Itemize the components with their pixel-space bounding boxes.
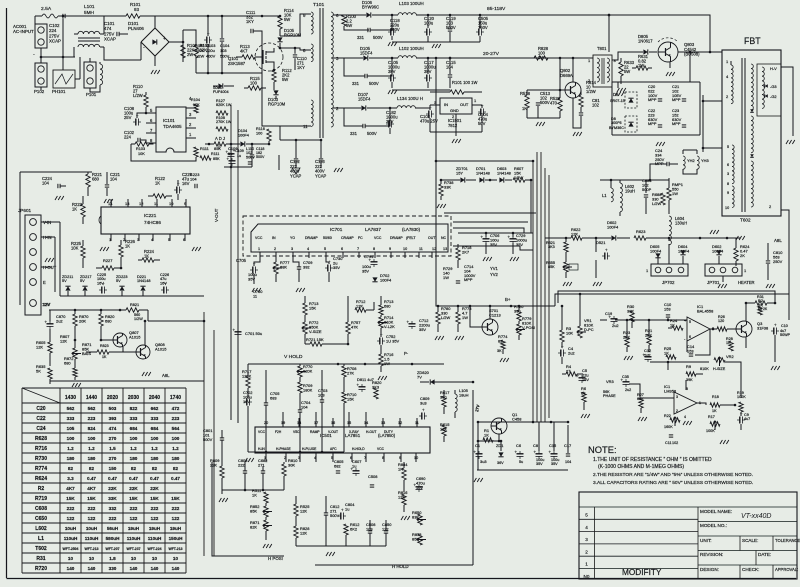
svg-text:19uH: 19uH	[170, 526, 182, 531]
connector P101	[84, 62, 97, 97]
svg-text:222: 222	[238, 462, 245, 467]
svg-text:68K: 68K	[280, 264, 287, 269]
wire jp feeds	[658, 244, 719, 264]
svg-text:DRAMP: DRAMP	[390, 236, 403, 240]
svg-text:122: 122	[88, 516, 96, 521]
wire opamp fb	[687, 329, 710, 355]
svg-text:6: 6	[689, 335, 691, 339]
svg-text:C6: C6	[516, 443, 522, 448]
capacitor C119 103 500V	[446, 14, 456, 42]
label UNIT	[700, 538, 712, 543]
resistor R185 850K	[195, 43, 205, 58]
svg-text:VR2: VR2	[726, 354, 734, 359]
svg-text:35V: 35V	[333, 265, 340, 270]
svg-text:110uH: 110uH	[148, 536, 162, 541]
diode D805 1N0617	[628, 34, 657, 55]
vertical IC dashed outline	[243, 216, 451, 256]
svg-text:2030: 2030	[128, 395, 139, 401]
svg-text:1/2W: 1/2W	[586, 89, 596, 94]
svg-text:DATE:: DATE:	[758, 552, 771, 557]
svg-text:5W: 5W	[624, 69, 630, 74]
svg-text:180: 180	[88, 456, 96, 461]
svg-text:C608: C608	[35, 506, 47, 512]
svg-text:C19: C19	[605, 311, 613, 316]
svg-text:470u 25V: 470u 25V	[420, 119, 438, 124]
svg-text:5V: 5V	[80, 279, 85, 283]
capacitor C19 2u2	[605, 311, 619, 328]
capacitor C120 100u	[424, 14, 435, 42]
svg-text:500V: 500V	[256, 155, 265, 159]
capacitor C102b 224	[124, 130, 156, 143]
capacitor C109 1u	[226, 144, 244, 159]
svg-text:WFT-237: WFT-237	[126, 547, 140, 551]
svg-text:30K: 30K	[288, 462, 295, 467]
svg-text:YV1: YV1	[490, 266, 499, 271]
wire	[231, 203, 238, 300]
resistor R720b 390	[514, 304, 524, 324]
svg-text:35V: 35V	[551, 462, 558, 466]
svg-text:C22: C22	[36, 416, 45, 422]
svg-text:330: 330	[109, 566, 117, 571]
capacitor C113 222 400V YCAP	[315, 140, 327, 178]
capacitor C222 47u 16V	[174, 172, 193, 200]
svg-text:H-SIZE: H-SIZE	[713, 367, 726, 371]
svg-text:R9: R9	[686, 364, 692, 369]
svg-text:(LA7830): (LA7830)	[402, 227, 421, 232]
wire yoke left	[702, 95, 722, 152]
capacitor C110 271 1KY	[293, 48, 308, 70]
pin 14	[108, 199, 113, 207]
capacitor C112 222 400V YCAP	[290, 140, 302, 178]
svg-text:WFT-224: WFT-224	[147, 547, 161, 551]
svg-text:DUTY: DUTY	[384, 430, 394, 434]
resistor R871b 85K BAIS	[72, 339, 91, 368]
diode D107 15DF4	[344, 92, 391, 111]
svg-text:V-L2K: V-L2K	[384, 324, 395, 329]
wire	[219, 489, 284, 502]
svg-text:L103 100UH: L103 100UH	[399, 1, 424, 6]
svg-text:10K: 10K	[566, 330, 573, 335]
capacitor C14 153	[687, 344, 695, 356]
svg-text:1N4148: 1N4148	[137, 279, 150, 283]
capacitor C111 332 1KY	[246, 10, 262, 38]
FBT HV cell	[757, 64, 781, 116]
svg-text:39K: 39K	[686, 378, 693, 382]
resistor R116 100	[256, 127, 271, 144]
wire V-OUT loop	[0, 0, 1, 1]
resistor R617 330	[440, 390, 449, 414]
IC501 top pins	[264, 421, 419, 425]
svg-text:2040: 2040	[149, 395, 160, 401]
capacitor C730 2u 35V	[325, 256, 343, 282]
resistor R223 1K	[72, 196, 85, 224]
svg-text:2SK1587: 2SK1587	[228, 61, 246, 66]
transistor Q808 A1015	[123, 342, 167, 359]
label T602	[740, 218, 751, 223]
svg-text:140: 140	[151, 566, 159, 571]
capacitor C114 331 500V	[357, 15, 392, 40]
pin E	[43, 280, 46, 285]
wire	[40, 57, 42, 90]
resistor R607 15K 1/2W	[513, 166, 532, 182]
svg-text:100: 100	[250, 81, 258, 86]
wire yoke link	[280, 126, 322, 141]
diode D701 1N4148	[476, 166, 497, 183]
resistor R102 22K 2W	[181, 43, 198, 58]
svg-text:F2H: F2H	[275, 430, 282, 434]
svg-text:6K2: 6K2	[350, 526, 357, 531]
resistor R713 15K	[303, 296, 319, 315]
label HEATER	[738, 280, 755, 285]
svg-text:100: 100	[130, 436, 138, 441]
svg-text:684: 684	[130, 426, 138, 431]
svg-text:5W: 5W	[346, 23, 352, 28]
resistor R777 68K	[273, 258, 289, 282]
diode D8 SR07	[610, 92, 637, 108]
svg-text:250V: 250V	[773, 259, 783, 264]
wire 12v rail	[49, 309, 126, 312]
label 12V	[42, 302, 50, 307]
diode D605 100F4	[650, 244, 662, 258]
svg-text:L101: L101	[84, 4, 95, 10]
svg-text:UNIT:: UNIT:	[700, 538, 712, 543]
svg-text:C705: C705	[236, 258, 247, 263]
resistor R814 10 1/2W	[579, 80, 597, 112]
note line 1	[593, 457, 712, 463]
node	[40, 15, 65, 59]
capacitor C118b 182 500V	[250, 144, 265, 167]
svg-text:ZD1: ZD1	[496, 443, 503, 448]
resistor R115 100	[244, 76, 266, 90]
svg-text:100: 100	[256, 131, 262, 135]
svg-text:R628: R628	[35, 436, 47, 442]
svg-text:WFT-213: WFT-213	[168, 547, 182, 551]
ground	[683, 421, 729, 444]
resistor R528 470	[550, 90, 562, 118]
capacitor C17 104	[564, 443, 571, 464]
svg-text:6: 6	[341, 247, 343, 251]
pin 1	[109, 234, 111, 242]
svg-text:392: 392	[303, 264, 310, 269]
svg-text:+: +	[163, 36, 166, 42]
svg-text:+: +	[740, 412, 743, 417]
svg-text:110uH: 110uH	[64, 536, 78, 541]
wire	[0, 0, 1, 1]
flyback FBT label	[744, 36, 761, 46]
wire	[0, 0, 1, 1]
svg-text:GND: GND	[450, 108, 459, 113]
svg-text:JP702: JP702	[662, 280, 675, 285]
svg-text:1.5: 1.5	[109, 446, 116, 451]
svg-text:580uH: 580uH	[106, 536, 121, 541]
ground	[245, 458, 254, 462]
svg-text:+: +	[422, 408, 425, 413]
svg-text:10uH: 10uH	[86, 526, 98, 531]
wire	[144, 320, 206, 345]
svg-text:4K7: 4K7	[240, 49, 248, 54]
pin 2	[333, 106, 344, 111]
svg-text:R823: R823	[100, 344, 109, 348]
svg-text:+: +	[474, 450, 477, 455]
wire	[392, 89, 450, 91]
svg-text:C24: C24	[36, 426, 45, 432]
IC501 bottom labels	[258, 447, 385, 451]
svg-text:1.2: 1.2	[151, 446, 158, 451]
svg-text:+: +	[369, 258, 372, 263]
svg-text:VCC: VCC	[377, 447, 385, 451]
svg-text:5K: 5K	[36, 368, 41, 373]
wire	[60, 222, 204, 296]
svg-text:YH2: YH2	[687, 158, 695, 163]
resistor R2b 2K	[758, 298, 763, 315]
svg-text:4K7: 4K7	[87, 486, 96, 491]
svg-text:-G3: -G3	[770, 84, 777, 89]
svg-text:HEATER: HEATER	[738, 280, 755, 285]
svg-text:1K: 1K	[252, 492, 257, 497]
svg-text:100: 100	[88, 436, 96, 441]
svg-text:0.47: 0.47	[108, 476, 117, 481]
svg-text:180K: 180K	[303, 387, 313, 392]
svg-text:OUT: OUT	[460, 102, 469, 107]
capacitor C226 47u 16V	[160, 273, 169, 294]
svg-text:1430: 1430	[65, 395, 76, 401]
diode D104 100F4	[226, 129, 270, 147]
capacitor C810 563 250V	[766, 243, 783, 280]
resistor R635 5K	[36, 364, 52, 384]
label TOLERANCE	[775, 538, 800, 543]
svg-text:180: 180	[151, 456, 159, 461]
resistor R621 3K3	[546, 237, 568, 262]
svg-text:1W: 1W	[443, 275, 449, 280]
wire	[0, 0, 1, 1]
svg-text:MODIFITY: MODIFITY	[622, 568, 662, 577]
svg-text:BAL4558: BAL4558	[697, 308, 714, 313]
FBT lower winding	[725, 145, 734, 210]
pin V-IN	[41, 220, 60, 225]
svg-text:P-: P-	[404, 351, 409, 356]
zener ZD223 5V	[116, 275, 128, 291]
capacitor C102	[49, 14, 65, 44]
svg-text:10K: 10K	[138, 152, 145, 156]
capacitor C115 104	[446, 57, 456, 88]
svg-text:122: 122	[172, 516, 180, 521]
resistor R624 0.47 2K	[734, 238, 750, 266]
resistor R525 12K	[294, 496, 310, 522]
svg-text:R104: R104	[191, 98, 200, 102]
svg-text:25V: 25V	[124, 115, 132, 120]
svg-text:(FELT: (FELT	[406, 236, 416, 240]
svg-text:1.2: 1.2	[88, 446, 95, 451]
wire bus to vr1	[561, 293, 582, 330]
diode S004 FUF4004	[213, 83, 234, 94]
diode D221 1N4148	[137, 275, 150, 291]
pot R650 83K	[412, 510, 426, 525]
svg-text:270: 270	[109, 456, 117, 461]
svg-text:500V: 500V	[446, 25, 456, 30]
pin H-OUT	[41, 265, 57, 270]
wire	[668, 238, 670, 241]
svg-text:74HC86: 74HC86	[144, 220, 161, 225]
svg-text:PLN406: PLN406	[128, 26, 144, 31]
svg-text:R31: R31	[36, 556, 45, 562]
svg-text:H-OUT: H-OUT	[366, 430, 376, 434]
capacitor C225 100u 16V	[97, 273, 107, 294]
svg-text:2: 2	[769, 204, 771, 209]
svg-text:3: 3	[676, 395, 678, 399]
degauss coil	[90, 58, 103, 92]
svg-text:140: 140	[130, 566, 138, 571]
svg-text:1.8: 1.8	[109, 556, 116, 561]
svg-text:400V: 400V	[206, 53, 216, 58]
resistor R688 330 L/2W	[652, 192, 665, 206]
svg-text:102: 102	[592, 103, 600, 108]
resistor R713b 680	[379, 296, 394, 315]
wire	[0, 0, 1, 1]
svg-text:4: 4	[585, 525, 588, 530]
svg-text:H-PLUSE: H-PLUSE	[302, 447, 317, 451]
wire h-posi loop	[212, 462, 284, 556]
ground	[718, 284, 775, 288]
wire	[0, 0, 1, 1]
ground	[45, 258, 54, 262]
pin H-IN	[41, 235, 55, 240]
op-amp IC101 TDA4605	[156, 107, 186, 152]
svg-text:YV2: YV2	[490, 272, 499, 277]
svg-text:19uH: 19uH	[128, 526, 140, 531]
capacitor C105 1000u 35V	[388, 58, 400, 94]
svg-text:X-RAY: X-RAY	[349, 430, 360, 434]
resistor R105 22K	[194, 147, 198, 157]
svg-text:22K: 22K	[129, 486, 138, 491]
capacitor C513 102 500V	[536, 91, 551, 118]
svg-text:TDA4605: TDA4605	[163, 124, 182, 129]
svg-text:120: 120	[718, 319, 724, 323]
svg-text:PH101: PH101	[52, 89, 66, 94]
svg-text:11: 11	[253, 293, 257, 298]
svg-text:5u: 5u	[519, 460, 523, 464]
svg-text:500V: 500V	[540, 100, 550, 105]
svg-text:1: 1	[646, 268, 648, 273]
pin 13	[125, 199, 130, 207]
svg-text:DESIGN:: DESIGN:	[700, 567, 719, 572]
inductor L102 100UH	[392, 46, 560, 58]
resistor R770 820K	[297, 364, 313, 382]
resistor R25 1K	[664, 346, 676, 359]
wire	[458, 232, 531, 237]
op-amp IC1 LM358	[664, 384, 701, 419]
svg-text:500V: 500V	[246, 155, 255, 159]
svg-text:FC: FC	[358, 236, 363, 240]
connector JP702	[646, 264, 688, 285]
resistor R718 2K7	[456, 244, 472, 268]
svg-text:MODEL NO.:: MODEL NO.:	[700, 523, 727, 528]
resistor R27 68K	[637, 393, 647, 421]
capacitor C35 2u2	[621, 375, 632, 392]
resistor R823 1K	[86, 344, 136, 359]
wire	[266, 418, 417, 427]
wire	[252, 288, 305, 292]
svg-text:R624: R624	[35, 476, 47, 482]
svg-text:820K: 820K	[303, 368, 313, 373]
wire	[266, 453, 416, 462]
svg-text:332: 332	[109, 506, 117, 511]
svg-text:15K: 15K	[347, 396, 354, 401]
svg-text:R730: R730	[35, 456, 47, 462]
svg-text:MPP: MPP	[672, 121, 681, 126]
resistor R111 85K	[200, 146, 221, 160]
svg-text:680: 680	[92, 177, 100, 182]
pot R852 85K	[250, 504, 272, 520]
svg-text:L134 100U H: L134 100U H	[397, 96, 423, 101]
pin 10	[169, 199, 174, 207]
svg-text:5W: 5W	[282, 77, 288, 82]
zener ZD820 7V	[417, 370, 474, 385]
capacitor C12 2u2	[643, 348, 652, 362]
pin 2	[452, 114, 456, 119]
label DATE	[758, 552, 771, 557]
pin 4	[151, 234, 154, 242]
svg-text:85-118V: 85-118V	[487, 6, 506, 12]
svg-text:VCC: VCC	[255, 236, 263, 240]
pin 9	[280, 13, 311, 36]
svg-text:680: 680	[105, 318, 112, 323]
diode D603 100F4	[712, 244, 724, 255]
svg-text:L102 100UH: L102 100UH	[399, 46, 424, 51]
svg-text:-: -	[143, 45, 145, 51]
title right grid	[698, 522, 797, 580]
svg-text:662: 662	[151, 406, 159, 411]
capacitor C752 1U 35V	[377, 328, 400, 352]
svg-text:D8: D8	[613, 92, 619, 97]
svg-text:2: 2	[588, 78, 590, 83]
svg-text:820K 1W: 820K 1W	[216, 103, 232, 107]
svg-text:IC101: IC101	[163, 118, 175, 123]
svg-text:222: 222	[151, 506, 159, 511]
op-amp IC1 BAL4558	[684, 304, 714, 341]
capacitor C809 3u3	[419, 396, 430, 420]
capacitor C682 271	[258, 458, 267, 490]
IC501 bottom pins	[264, 456, 418, 460]
capacitor C870 2u2	[45, 310, 67, 329]
resistor R28 1K	[726, 337, 733, 351]
svg-text:50WP: 50WP	[780, 333, 791, 337]
coil YH3	[697, 156, 709, 169]
svg-text:T602: T602	[740, 218, 751, 223]
svg-text:R103: R103	[136, 147, 145, 151]
svg-text:1.2: 1.2	[172, 446, 179, 451]
wire vpair top	[231, 105, 238, 203]
svg-text:A8L: A8L	[162, 373, 170, 378]
title block numbers	[584, 513, 590, 580]
inductor L1	[602, 179, 613, 202]
pot R17 100K	[706, 415, 720, 433]
label CHECK	[742, 567, 759, 572]
svg-text:47K: 47K	[351, 324, 358, 329]
resistor R21 22K	[645, 328, 652, 352]
note line 2	[593, 472, 753, 478]
pin 11	[154, 199, 158, 207]
svg-text:9: 9	[727, 191, 729, 195]
resistor R884 1K	[398, 462, 408, 492]
svg-text:+: +	[233, 328, 236, 333]
label NOTE	[588, 445, 617, 455]
svg-text:16V: 16V	[160, 281, 167, 285]
wire 20-27V rail	[449, 57, 534, 60]
svg-text:1: 1	[588, 58, 590, 63]
svg-text:NOTE:: NOTE:	[588, 445, 617, 455]
svg-text:0.47: 0.47	[87, 476, 96, 481]
capacitor C103 470u 25V	[420, 105, 438, 132]
